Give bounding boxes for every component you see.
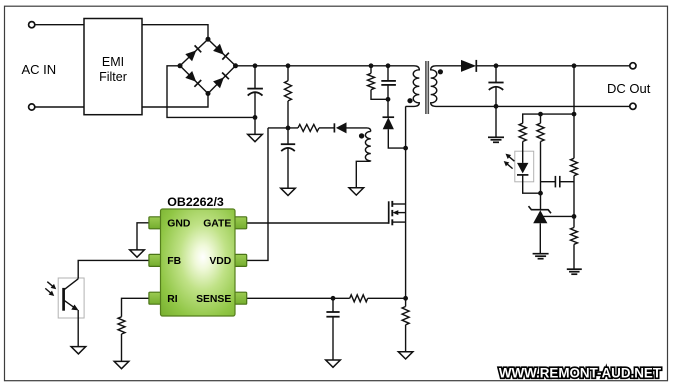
svg-text:DC Out: DC Out [607,81,651,96]
svg-text:Filter: Filter [99,70,127,84]
svg-text:GND: GND [167,219,191,230]
svg-text:AC IN: AC IN [22,62,57,77]
svg-text:SENSE: SENSE [196,294,231,305]
svg-text:EMI: EMI [102,55,124,69]
svg-text:VDD: VDD [209,256,231,267]
svg-text:WWW.REMONT-AUD.NET: WWW.REMONT-AUD.NET [499,366,662,381]
svg-text:FB: FB [167,256,181,267]
svg-text:RI: RI [167,294,178,305]
svg-text:GATE: GATE [203,219,231,230]
svg-text:OB2262/3: OB2262/3 [167,195,224,209]
